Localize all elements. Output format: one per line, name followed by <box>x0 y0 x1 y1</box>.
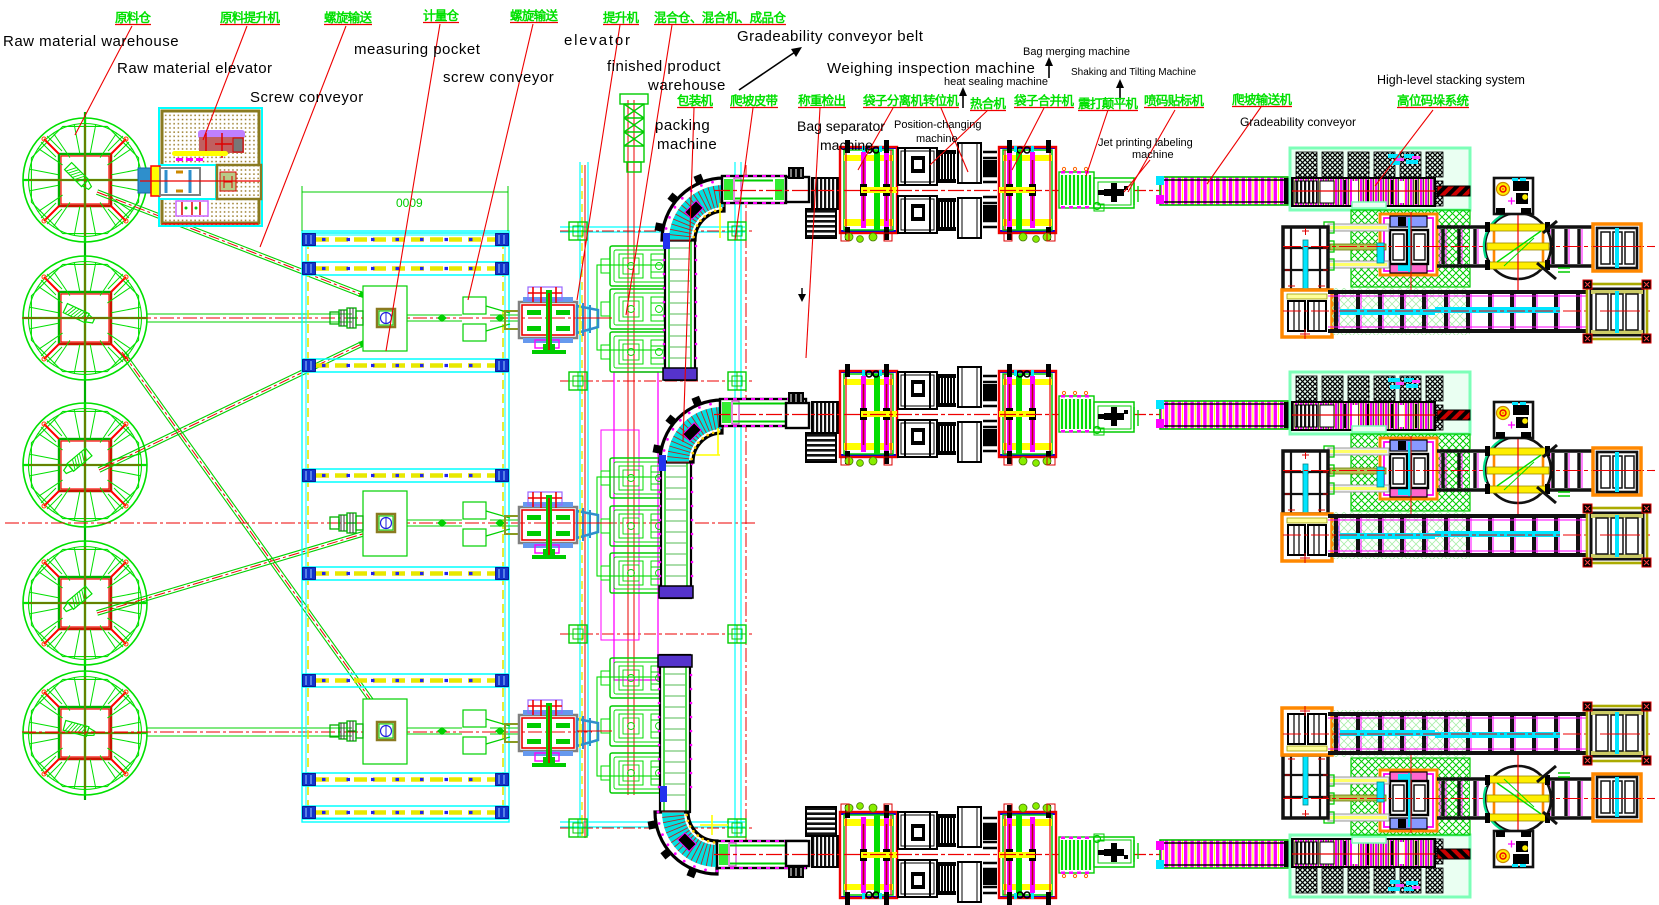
svg-text:爬坡输送机: 爬坡输送机 <box>1231 92 1292 107</box>
arrow shaking <box>1119 84 1121 100</box>
vertical belt conveyor x=660 <box>660 655 690 812</box>
svg-text:machine: machine <box>820 137 873 153</box>
svg-text:转位机: 转位机 <box>923 93 959 108</box>
wire axis line2 feed <box>5 522 758 524</box>
middle band <box>159 165 216 199</box>
left orange box <box>1282 290 1332 337</box>
svg-text:爬坡皮带: 爬坡皮带 <box>729 93 778 108</box>
node junction row y=231 <box>560 230 752 232</box>
svg-text:finished product: finished product <box>607 58 721 75</box>
incline belt horizontal 717-806 <box>717 841 806 868</box>
curved conveyor elbow at 724,240 <box>662 178 724 240</box>
svg-text:袋子合并机: 袋子合并机 <box>1013 93 1074 108</box>
weigher inlet line2 <box>786 403 809 428</box>
svg-text:packing: packing <box>655 117 710 134</box>
feed unit mixer cy=318 <box>505 287 612 354</box>
svg-text:machine: machine <box>916 133 958 145</box>
svg-text:machine: machine <box>657 136 717 153</box>
elevator tower <box>620 94 648 172</box>
axis bagline <box>714 190 1300 192</box>
feed unit mixer cy=523 <box>505 492 612 559</box>
node junction row y=381 <box>560 380 752 382</box>
screw feeder 1 <box>330 308 363 328</box>
svg-text:Weighing inspection machine: Weighing inspection machine <box>827 60 1035 77</box>
stacker infeed striped belt <box>1292 178 1435 206</box>
mid ladder row <box>1437 225 1592 268</box>
arrow heat sealing <box>962 92 964 108</box>
bag separator platform <box>812 178 838 209</box>
wire conveyor silo2-pocket3 <box>120 351 380 712</box>
wire service lines <box>581 165 583 838</box>
robot box <box>1494 178 1533 214</box>
raw material elevator enclosure <box>159 108 262 226</box>
jet printing labeling machine <box>1059 167 1138 211</box>
svg-text:称重检出: 称重检出 <box>798 93 846 108</box>
silo 3 Raw material warehouse <box>23 403 147 527</box>
measuring pocket 2 <box>363 491 407 556</box>
svg-text:螺旋输送: 螺旋输送 <box>510 8 558 23</box>
wire conveyor silo2 to pocket1 <box>147 314 352 322</box>
svg-text:Shaking and Tilting Machine: Shaking and Tilting Machine <box>1071 67 1197 78</box>
right orange frame <box>1593 224 1641 271</box>
svg-text:Screw conveyor: Screw conveyor <box>250 89 364 106</box>
svg-text:Bag merging machine: Bag merging machine <box>1023 46 1130 58</box>
grid beam y=359 <box>302 359 509 372</box>
bottom ladder row <box>1332 288 1470 335</box>
wire pocket1 links <box>407 315 519 321</box>
svg-text:原料提升机: 原料提升机 <box>220 10 280 25</box>
silo 5 Raw material warehouse <box>23 671 147 795</box>
bottom right frame <box>1587 284 1647 339</box>
silo 1 Raw material warehouse <box>23 118 147 242</box>
grid beam y=567 <box>302 567 509 580</box>
gradeability roller conveyor <box>1156 176 1290 205</box>
svg-text:measuring pocket: measuring pocket <box>354 41 481 58</box>
outlet cone 1 <box>463 297 510 341</box>
screw feeder 3 <box>330 721 363 741</box>
mixing warehouse grid frame <box>302 231 509 822</box>
incline belt horizontal 720-806 <box>720 399 806 426</box>
wire axis line3 feed <box>22 731 592 733</box>
turn table <box>1485 213 1551 279</box>
wire axis line1 feed <box>22 317 592 319</box>
wire silo trunk <box>84 112 86 800</box>
svg-text:Bag separator: Bag separator <box>797 118 885 134</box>
svg-text:喷码贴标机: 喷码贴标机 <box>1144 93 1204 108</box>
svg-text:提升机: 提升机 <box>603 10 639 25</box>
wire conveyor silo1-pocket1 <box>96 190 369 299</box>
mixing machines cluster y=243 <box>597 265 689 350</box>
outlet cone 2 <box>463 502 510 546</box>
screw feeder 2 <box>330 513 363 533</box>
silo 2 Raw material warehouse <box>23 256 147 380</box>
incline belt horizontal 722-786 <box>722 176 786 203</box>
svg-text:heat sealing machine: heat sealing machine <box>944 76 1048 88</box>
leader lines <box>75 24 1433 442</box>
svg-text:计量仓: 计量仓 <box>423 8 459 23</box>
packing room outline <box>614 372 658 680</box>
grid beam y=260 <box>302 233 509 246</box>
dimension 0009 <box>302 186 508 231</box>
grid beam y=806 <box>302 806 509 819</box>
svg-text:螺旋输送: 螺旋输送 <box>324 10 372 25</box>
node junction row y=634 <box>560 633 752 635</box>
purple machine <box>198 130 245 139</box>
svg-text:Raw material elevator: Raw material elevator <box>117 60 273 77</box>
heat sealing machine <box>898 143 997 238</box>
elevator boot <box>138 168 152 193</box>
wire cyan columns <box>560 162 745 836</box>
silo 4 Raw material warehouse <box>23 541 147 665</box>
curved conveyor elbow3 at 717,812 <box>655 812 717 874</box>
production line 3 <box>714 702 1655 905</box>
production line 2 <box>714 364 1655 567</box>
svg-text:elevator: elevator <box>564 32 632 49</box>
svg-text:High-level stacking system: High-level stacking system <box>1377 73 1525 87</box>
svg-text:原料仓: 原料仓 <box>115 10 151 25</box>
svg-text:震打颠平机: 震打颠平机 <box>1077 96 1138 111</box>
svg-text:高位码垛系统: 高位码垛系统 <box>1397 93 1469 108</box>
svg-text:Jet printing labeling: Jet printing labeling <box>1098 137 1193 149</box>
left pallet frame <box>1283 227 1328 290</box>
svg-text:混合仓、混合机、成品仓: 混合仓、混合机、成品仓 <box>654 10 786 25</box>
wire conveyor silo4-pocket2 <box>96 528 376 615</box>
node junction row y=828 <box>560 827 752 829</box>
wire pocket3 links <box>407 728 519 734</box>
yellow risers <box>719 203 721 238</box>
mixing machines cluster y=655 <box>597 677 689 776</box>
outlet cone 3 <box>463 710 510 754</box>
grid beam y=469 <box>302 469 509 482</box>
wire pocket2 links <box>407 520 519 526</box>
arrow small down <box>801 288 803 298</box>
svg-text:machine: machine <box>1132 149 1174 161</box>
pallet lift orange frame <box>1378 213 1438 276</box>
grid beam y=773 <box>302 773 509 786</box>
wire conveyor silo5 to pocket3 <box>147 728 352 736</box>
weighing machine unit B <box>999 140 1056 242</box>
high-level stacking system <box>1282 148 1655 343</box>
svg-text:Gradeability conveyor belt: Gradeability conveyor belt <box>737 28 924 45</box>
arrow gradeability <box>739 50 798 90</box>
yellow bar <box>172 151 228 156</box>
mixing machines cluster y=455 <box>597 477 689 576</box>
svg-text:warehouse: warehouse <box>647 77 726 94</box>
svg-text:Position-changing: Position-changing <box>894 119 981 131</box>
mint hatched warehouse box <box>1290 148 1470 210</box>
svg-text:包装机: 包装机 <box>676 93 713 108</box>
wire conveyor silo3-pocket1 <box>98 339 369 472</box>
svg-text:Gradeability conveyor: Gradeability conveyor <box>1240 115 1356 129</box>
weigher inlet line1 <box>786 177 809 202</box>
vertical belt conveyor x=661 <box>661 458 691 598</box>
transfer bars <box>1328 224 1389 268</box>
svg-text:Raw material warehouse: Raw material warehouse <box>3 33 179 50</box>
svg-text:袋子分离机: 袋子分离机 <box>862 93 923 108</box>
grid beam y=674 <box>302 674 509 687</box>
arrow bag merging <box>1048 62 1050 78</box>
weighing machine unit A <box>840 140 897 242</box>
measuring pocket 3 <box>363 699 407 764</box>
bottom band <box>176 201 208 216</box>
vertical belt conveyor x=665 <box>665 240 695 380</box>
svg-text:热合机: 热合机 <box>970 96 1006 111</box>
weigher inlet line3 <box>786 841 809 866</box>
curved conveyor elbow at 722,462 <box>660 400 722 462</box>
svg-text:screw conveyor: screw conveyor <box>443 69 554 86</box>
palletizer hatch zone <box>1351 210 1470 287</box>
feed unit mixer cy=731 <box>505 700 612 767</box>
measuring pocket 1 <box>363 286 407 351</box>
